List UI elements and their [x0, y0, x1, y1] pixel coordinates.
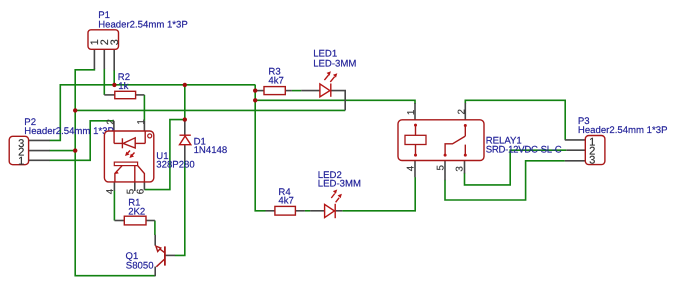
U1 pin1 dot circle [148, 134, 152, 138]
wire P1 pin3 to rail1 [113, 70, 115, 85]
wire R1 to Q1 emitter [154, 221, 156, 236]
pin stub P2.3 [29, 139, 50, 141]
resistor R4 [275, 206, 296, 215]
wire R2 to U1 pin1 [143, 95, 145, 121]
wire U1 pin4 to R1 [113, 190, 115, 220]
pin stub P1.3 [113, 49, 115, 70]
pin stub LED2 anode [310, 210, 325, 212]
pin stub R4 right lead [295, 210, 305, 212]
svg-text:S8050: S8050 [126, 261, 154, 272]
pin stub R1 left lead [115, 220, 125, 222]
pin stub U1.5 [134, 182, 136, 191]
wire R3 to LED1 [292, 90, 301, 92]
relay RELAY1 body [398, 120, 484, 161]
U1 coupling arrows [125, 151, 135, 159]
pin stub R2 right lead [136, 94, 145, 96]
svg-text:LED-3MM: LED-3MM [313, 58, 356, 69]
svg-text:LED-3MM: LED-3MM [318, 178, 361, 189]
wire P2 pin2 to node [49, 150, 75, 152]
pin stub LED1 anode [301, 90, 320, 92]
junction node D1 top [183, 117, 187, 121]
junction node P1.3/rail1 [112, 83, 116, 87]
wire rail2 ground [75, 109, 345, 111]
pin stub U1.2 [113, 121, 115, 131]
wire D1 cathode to rail1 [184, 85, 186, 120]
pin stub D1 cathode [184, 120, 186, 135]
junction node relay feed [253, 98, 257, 102]
svg-text:5: 5 [436, 165, 447, 171]
resistor R2 [115, 91, 136, 98]
connector P2 body [9, 136, 28, 164]
pin stub Q1 collector [154, 267, 156, 277]
pin stub P3.3 [565, 160, 586, 162]
U1 phototransistor [114, 162, 144, 182]
pin stub RELAY1.5 [444, 160, 446, 180]
pin stub P2.2 [29, 150, 50, 152]
svg-text:1: 1 [136, 119, 147, 124]
pin stub P1.2 [103, 49, 105, 69]
wire relay coil pin1 feed [255, 100, 415, 104]
wire +12 column x255 [255, 85, 265, 211]
svg-text:6: 6 [135, 188, 146, 194]
connector P1 body [88, 30, 119, 50]
svg-text:Header2.54mm 1*3P: Header2.54mm 1*3P [24, 126, 114, 137]
svg-text:4: 4 [105, 188, 116, 194]
relay switch [444, 124, 467, 157]
wire relay pin2 to P3 pin1 [465, 100, 565, 140]
pin stub Q1 emitter [154, 235, 156, 246]
pin stub U1.6 [143, 182, 145, 190]
diode D1 [180, 135, 191, 145]
svg-text:1N4148: 1N4148 [194, 145, 228, 156]
pin stub P3.1 [565, 139, 586, 141]
relay coil [405, 124, 426, 157]
svg-text:4k7: 4k7 [268, 75, 283, 86]
pin stub D1 anode [184, 145, 186, 162]
pin stub RELAY1.1 [414, 103, 416, 120]
wire rail1 +12V top [49, 85, 255, 141]
resistor R3 [264, 87, 285, 95]
svg-text:1: 1 [18, 155, 24, 167]
junction node P2.2 [73, 148, 77, 152]
svg-text:2K2: 2K2 [128, 206, 145, 217]
wire node to U1 pin6 branch [144, 120, 184, 190]
wire P2 pin1 to U1 pin2 [49, 121, 114, 161]
svg-text:1: 1 [406, 110, 417, 115]
pin stub R3 right lead [285, 90, 292, 92]
svg-text:4: 4 [405, 165, 416, 171]
wire relay pin3 to P3 pin2 [465, 150, 567, 185]
wire relay pin5 to P3 pin3 [445, 161, 565, 200]
svg-text:Header2.54mm 1*3P: Header2.54mm 1*3P [98, 19, 188, 30]
connector P3 body [585, 136, 605, 165]
wire R4 to LED2 [305, 210, 310, 212]
pin stub U1.1 [143, 121, 145, 131]
pin stub LED2 cathode [336, 210, 343, 212]
svg-text:3: 3 [589, 155, 595, 167]
LED LED2 [325, 190, 342, 219]
junction node rail2 start [73, 108, 77, 112]
pin stub R2 left lead [104, 94, 115, 96]
svg-text:4k7: 4k7 [278, 195, 293, 206]
pin stub P3.2 [566, 149, 585, 151]
pin stub R3 left lead [255, 90, 264, 92]
wire P1 pin2 to R2 [103, 69, 105, 95]
junction node R3 left [253, 88, 257, 92]
pin stub RELAY1.2 [464, 103, 466, 120]
pin stub U1.4 [113, 182, 115, 191]
pin stub RELAY1.3 [464, 160, 466, 173]
resistor R1 [124, 216, 146, 225]
pin stub P1.1 [93, 49, 95, 69]
svg-text:3: 3 [455, 166, 466, 172]
svg-text:1k: 1k [118, 81, 128, 92]
junction node D1/rail1 [183, 83, 187, 87]
pin stub Q1 base [165, 254, 175, 256]
U1 internal LED [114, 131, 145, 148]
svg-text:2: 2 [457, 109, 468, 114]
svg-text:328P280: 328P280 [156, 160, 194, 171]
pin stub R1 right lead [146, 220, 155, 222]
wire LED2 cathode to relay pin4 [342, 177, 415, 211]
wire P1 pin1 to ground row [75, 69, 155, 276]
wire LED1 cathode wrap to rail2 [331, 91, 345, 111]
svg-text:2: 2 [106, 119, 117, 124]
optocoupler U1 body [104, 131, 153, 182]
pin stub R4 left lead [266, 210, 275, 212]
svg-text:SRD-12VDC-SL-C: SRD-12VDC-SL-C [486, 144, 562, 155]
transistor Q1 [156, 246, 165, 267]
pin stub P2.1 [29, 159, 50, 161]
svg-text:Header2.54mm 1*3P: Header2.54mm 1*3P [578, 125, 668, 136]
pin stub RELAY1.4 [414, 160, 416, 177]
svg-text:3: 3 [109, 39, 121, 45]
wire Q1 base to D1 anode [175, 161, 185, 256]
LED LED1 [320, 71, 337, 97]
